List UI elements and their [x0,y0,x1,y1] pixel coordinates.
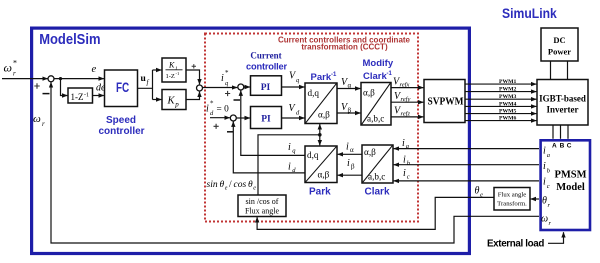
wire: V_beta [337,112,360,114]
svg-text:e: e [92,64,97,75]
svg-text:Model: Model [556,182,585,193]
svg-text:i: i [543,177,546,188]
block PI upper [251,76,282,96]
svg-text:i: i [206,104,209,115]
label i_d feedback [288,162,296,175]
label A B C [552,143,572,150]
wire: V_refz [391,116,423,118]
wire: i_d* to S4 [210,117,230,119]
svg-text:q: q [296,77,300,84]
block SVPWM [424,80,465,123]
pin label i_b [543,161,551,174]
wire: V_alpha [337,88,360,90]
svg-text:ω: ω [541,214,548,225]
svg-text:Flux angle: Flux angle [498,191,526,198]
wire: branch down to 1-Z^-1 [61,79,68,96]
pin label i_a [543,146,550,159]
svg-text:refx: refx [400,82,410,89]
wire DC Power to IGBT (left) [550,61,552,80]
svg-text:B: B [560,143,565,150]
wire DC Power to IGBT (right) [567,61,569,80]
block Flux angle Transform [494,188,530,211]
wire IGBT to PMSM phase B [560,125,562,139]
svg-text:a,b,c: a,b,c [368,172,385,182]
svg-text:*: * [210,100,214,108]
wire PWM3 [465,98,536,100]
svg-text:θ: θ [248,180,253,190]
svg-text:-1: -1 [331,72,337,78]
label V_alpha [341,77,352,90]
wire: 1-Z^-1 to FC (de) [93,95,104,97]
node: junction dot [318,133,322,137]
svg-text:sin /cos of: sin /cos of [246,197,279,206]
svg-text:External load: External load [487,239,544,250]
block Ki/(1-Z^-1) [162,58,186,82]
sign + at S1 [34,83,39,88]
sign + at S3 [225,91,230,96]
svg-text:-1: -1 [84,93,89,99]
block DC Power [541,28,578,61]
svg-text:ω: ω [33,113,41,125]
svg-text:*: * [13,59,17,68]
svg-text:PI: PI [261,83,271,93]
wire: i_a PMSM to Clark [394,148,539,150]
svg-text:PWM3: PWM3 [499,94,517,100]
wire: S1 to FC (e) [54,78,104,80]
sign + at S2 [192,64,196,68]
wire PWM4 [465,105,536,107]
svg-text:i: i [288,142,291,153]
svg-text:IGBT-based: IGBT-based [539,94,586,104]
svg-text:Clark: Clark [365,187,390,198]
svg-text:p: p [174,100,179,108]
wire: theta_r PMSM to Flux angle Transform [531,198,539,200]
label V_refx [393,77,409,89]
wire: FC output split to Ki and Kp [138,70,153,100]
svg-text:sin: sin [207,180,218,190]
wire: i_b [394,164,539,166]
wire: V_refy [391,101,423,103]
wire: Ki to S2 [186,70,200,84]
svg-text:i: i [346,141,349,152]
wire PWM5 [465,113,536,115]
wire: i_d feedback Park to S4 [233,122,305,173]
svg-text:Transform.: Transform. [497,200,527,207]
pin label i_c [543,177,550,190]
svg-text:α,β: α,β [363,88,375,98]
svg-text:-1: -1 [176,71,180,76]
svg-text:i: i [403,168,406,179]
summing junction S4 [230,115,236,121]
block Park transform [305,146,337,183]
block Clark-1 transform [361,83,391,126]
svg-text:f: f [147,79,150,87]
svg-text:q: q [292,148,296,155]
label V_beta [341,102,352,114]
svg-text:θ: θ [542,196,547,207]
pin label theta_r [542,196,551,210]
svg-text:c: c [547,183,550,190]
label V_refz [394,106,410,118]
wire IGBT to PMSM phase A [552,125,554,139]
block sin/cos of Flux angle [238,195,286,217]
svg-text:refz: refz [401,111,411,118]
label u_f [141,74,150,87]
svg-text:e: e [253,186,256,192]
svg-text:PWM4: PWM4 [499,101,517,107]
label i_c near Clark [403,168,410,180]
svg-text:i: i [543,146,546,157]
wire: S2 to S3 (i_q*) [202,87,237,89]
wire PWM6 [465,120,536,122]
svg-text:i: i [543,161,546,172]
sign - at S3 [234,99,241,101]
svg-text:-1: -1 [387,71,393,77]
svg-text:Park: Park [309,187,331,198]
wire: External load to PMSM [548,232,564,243]
svg-text:α,β: α,β [318,170,330,180]
svg-text:refy: refy [401,96,411,103]
svg-text:Speed: Speed [106,115,136,126]
svg-text:d: d [296,110,300,117]
svg-text:α: α [350,146,354,154]
svg-text:SimuLink: SimuLink [502,5,557,21]
svg-text:*: * [225,69,229,77]
svg-text:Clark: Clark [363,71,387,82]
svg-text:ModelSim: ModelSim [39,31,100,48]
svg-text:controller: controller [98,126,144,137]
block 1-Z^-1 [68,88,93,103]
wire IGBT to PMSM phase C [567,125,569,139]
label Park-1 [311,72,337,83]
svg-text:r: r [42,120,45,128]
wire: omega_r* input arrow [2,78,48,80]
wire: theta_e Flux Transform to sin/cos box [257,197,494,229]
label i_d* = 0 [206,100,229,118]
svg-text:Flux angle: Flux angle [245,206,279,215]
label i_q* [221,69,229,87]
label i_beta [347,158,355,171]
block Park-1 transform [305,83,337,124]
svg-text:r: r [13,70,16,78]
svg-text:DC: DC [553,35,565,45]
wire: omega_r feedback PMSM to S1 [51,82,539,243]
wire PWM1 SVPWM to IGBT [465,83,536,85]
svg-text:b: b [407,160,411,167]
svg-text:i: i [402,138,405,149]
wire: V_refx [391,87,423,89]
svg-text:α,β: α,β [318,110,330,120]
block Clark transform [362,145,393,183]
pin label omega_r [541,214,552,228]
label theta_e [475,186,484,199]
svg-text:K: K [167,95,176,106]
summing junction S3 [238,84,244,90]
svg-text:a,b,c: a,b,c [367,114,384,124]
svg-text:K: K [168,61,175,70]
svg-text:θ: θ [220,180,225,190]
svg-text:β: β [348,106,352,114]
label i_q feedback [288,142,296,155]
svg-text:q: q [225,80,229,87]
svg-text:PWM1: PWM1 [499,79,517,85]
svg-text:PMSM: PMSM [554,170,586,181]
svg-text:A: A [552,143,557,150]
svg-text:d,q: d,q [307,150,319,160]
svg-text:θ: θ [475,186,480,197]
svg-text:controller: controller [246,62,287,72]
svg-text:PWM5: PWM5 [499,109,517,115]
svg-text:i: i [221,73,224,84]
svg-text:i: i [347,158,350,169]
svg-text:c: c [407,173,410,180]
svg-text:a: a [547,152,550,159]
svg-text:α: α [348,82,352,90]
svg-text:d,q: d,q [308,88,320,98]
svg-text:Park: Park [311,72,332,83]
svg-text:1-Z: 1-Z [166,73,175,80]
node: branch dot after S1 [59,77,62,80]
svg-text:SVPWM: SVPWM [428,97,464,108]
wire: sin/cos box up to Park-1 and Park [258,135,320,195]
svg-text:/: / [229,180,232,190]
label omega_r feedback [33,113,45,128]
svg-text:C: C [567,143,572,150]
wire: i_alpha Clark to Park [338,153,362,155]
svg-text:e: e [225,186,228,192]
label V_q [289,71,300,85]
label i_b near Clark [403,155,411,167]
wire: up into Park-1 bottom [319,124,321,135]
svg-text:Power: Power [548,47,571,57]
svg-text:Inverter: Inverter [547,105,579,115]
svg-text:i: i [403,155,406,166]
summing junction S1 [48,76,54,82]
svg-text:Current: Current [250,51,281,61]
svg-text:d: d [210,110,214,117]
sign + at S4 [214,124,219,129]
svg-text:= 0: = 0 [217,105,230,115]
wire: i_c [394,180,539,182]
sign - at S1 [43,93,50,95]
svg-text:Modify: Modify [363,58,394,69]
label sin theta_e / cos theta_e [207,180,257,192]
wire: S4 to PI2 [236,117,250,119]
svg-text:cos: cos [234,180,247,190]
svg-text:α,β: α,β [364,147,376,157]
label i_a near Clark [402,138,409,150]
svg-text:i: i [288,162,291,173]
svg-text:PWM6: PWM6 [499,116,517,122]
label V_d [289,103,301,117]
ModelSim boundary box [32,28,470,253]
svg-text:PWM2: PWM2 [499,87,517,93]
svg-text:ω: ω [4,61,12,75]
wire: down into Park top [319,135,321,146]
svg-text:β: β [351,162,355,170]
block PMSM Model [541,140,590,230]
svg-text:1-Z: 1-Z [71,92,84,102]
CCCT dashed box [205,34,418,222]
label V_refy [394,91,410,103]
summing junction S2 [197,85,203,91]
wire: Kp to S2 [186,92,200,100]
block Kp [162,90,186,110]
label omega_r* [4,59,18,78]
wire: i_beta Clark to Park [338,174,362,176]
block PI lower [251,107,282,129]
svg-text:FC: FC [116,80,129,95]
wire: PI1 to Park-1 (V_q) [282,86,305,88]
wire PWM2 [465,91,536,93]
wire: PI2 to Park-1 (V_d) [282,117,305,119]
svg-text:transformation (CCCT): transformation (CCCT) [301,42,388,51]
wire: S3 to PI1 [244,86,250,88]
block IGBT-based Inverter [537,80,588,126]
svg-text:PI: PI [261,115,271,125]
svg-text:a: a [406,143,409,150]
label i_alpha [346,141,354,154]
block FC [105,70,138,107]
sign - at S4 [227,131,233,133]
wire: i_q feedback Park to S3 [241,91,305,156]
